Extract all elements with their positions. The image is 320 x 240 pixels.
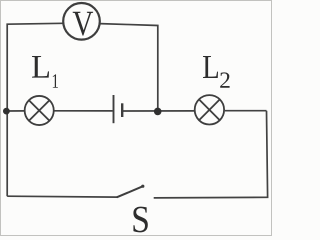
battery cell long plate (113, 95, 115, 123)
battery cell short plate (121, 103, 123, 117)
voltmeter U1 circle (63, 3, 100, 40)
label L1 subscript 1 (53, 74, 58, 88)
lamp L2 symbol (195, 95, 224, 124)
label L1 (32, 56, 49, 78)
wire: node A to lamp L1 (6, 110, 25, 112)
switch S label (133, 207, 147, 233)
voltmeter label V (73, 12, 93, 36)
node B junction dot (154, 108, 162, 116)
wire: right rail down, bottom run to switch right contact (154, 111, 268, 198)
label L2 (203, 56, 218, 78)
wire: voltmeter to top-right corner, down to node B (100, 24, 158, 111)
wire: left rail (top corner to bottom corner) (7, 23, 63, 196)
wire: lamp L2 to right rail (225, 110, 267, 112)
wire: switch left contact to left rail (7, 195, 117, 198)
switch S lever (117, 186, 143, 197)
lamp L1 symbol (25, 96, 54, 125)
switch S lever tip blob (141, 185, 144, 188)
wire: lamp L1 to battery long plate (54, 110, 113, 112)
wire: battery short plate to node B to lamp L2 (123, 110, 194, 112)
label L2 subscript 2 (220, 72, 229, 87)
node A junction dot (3, 108, 10, 115)
